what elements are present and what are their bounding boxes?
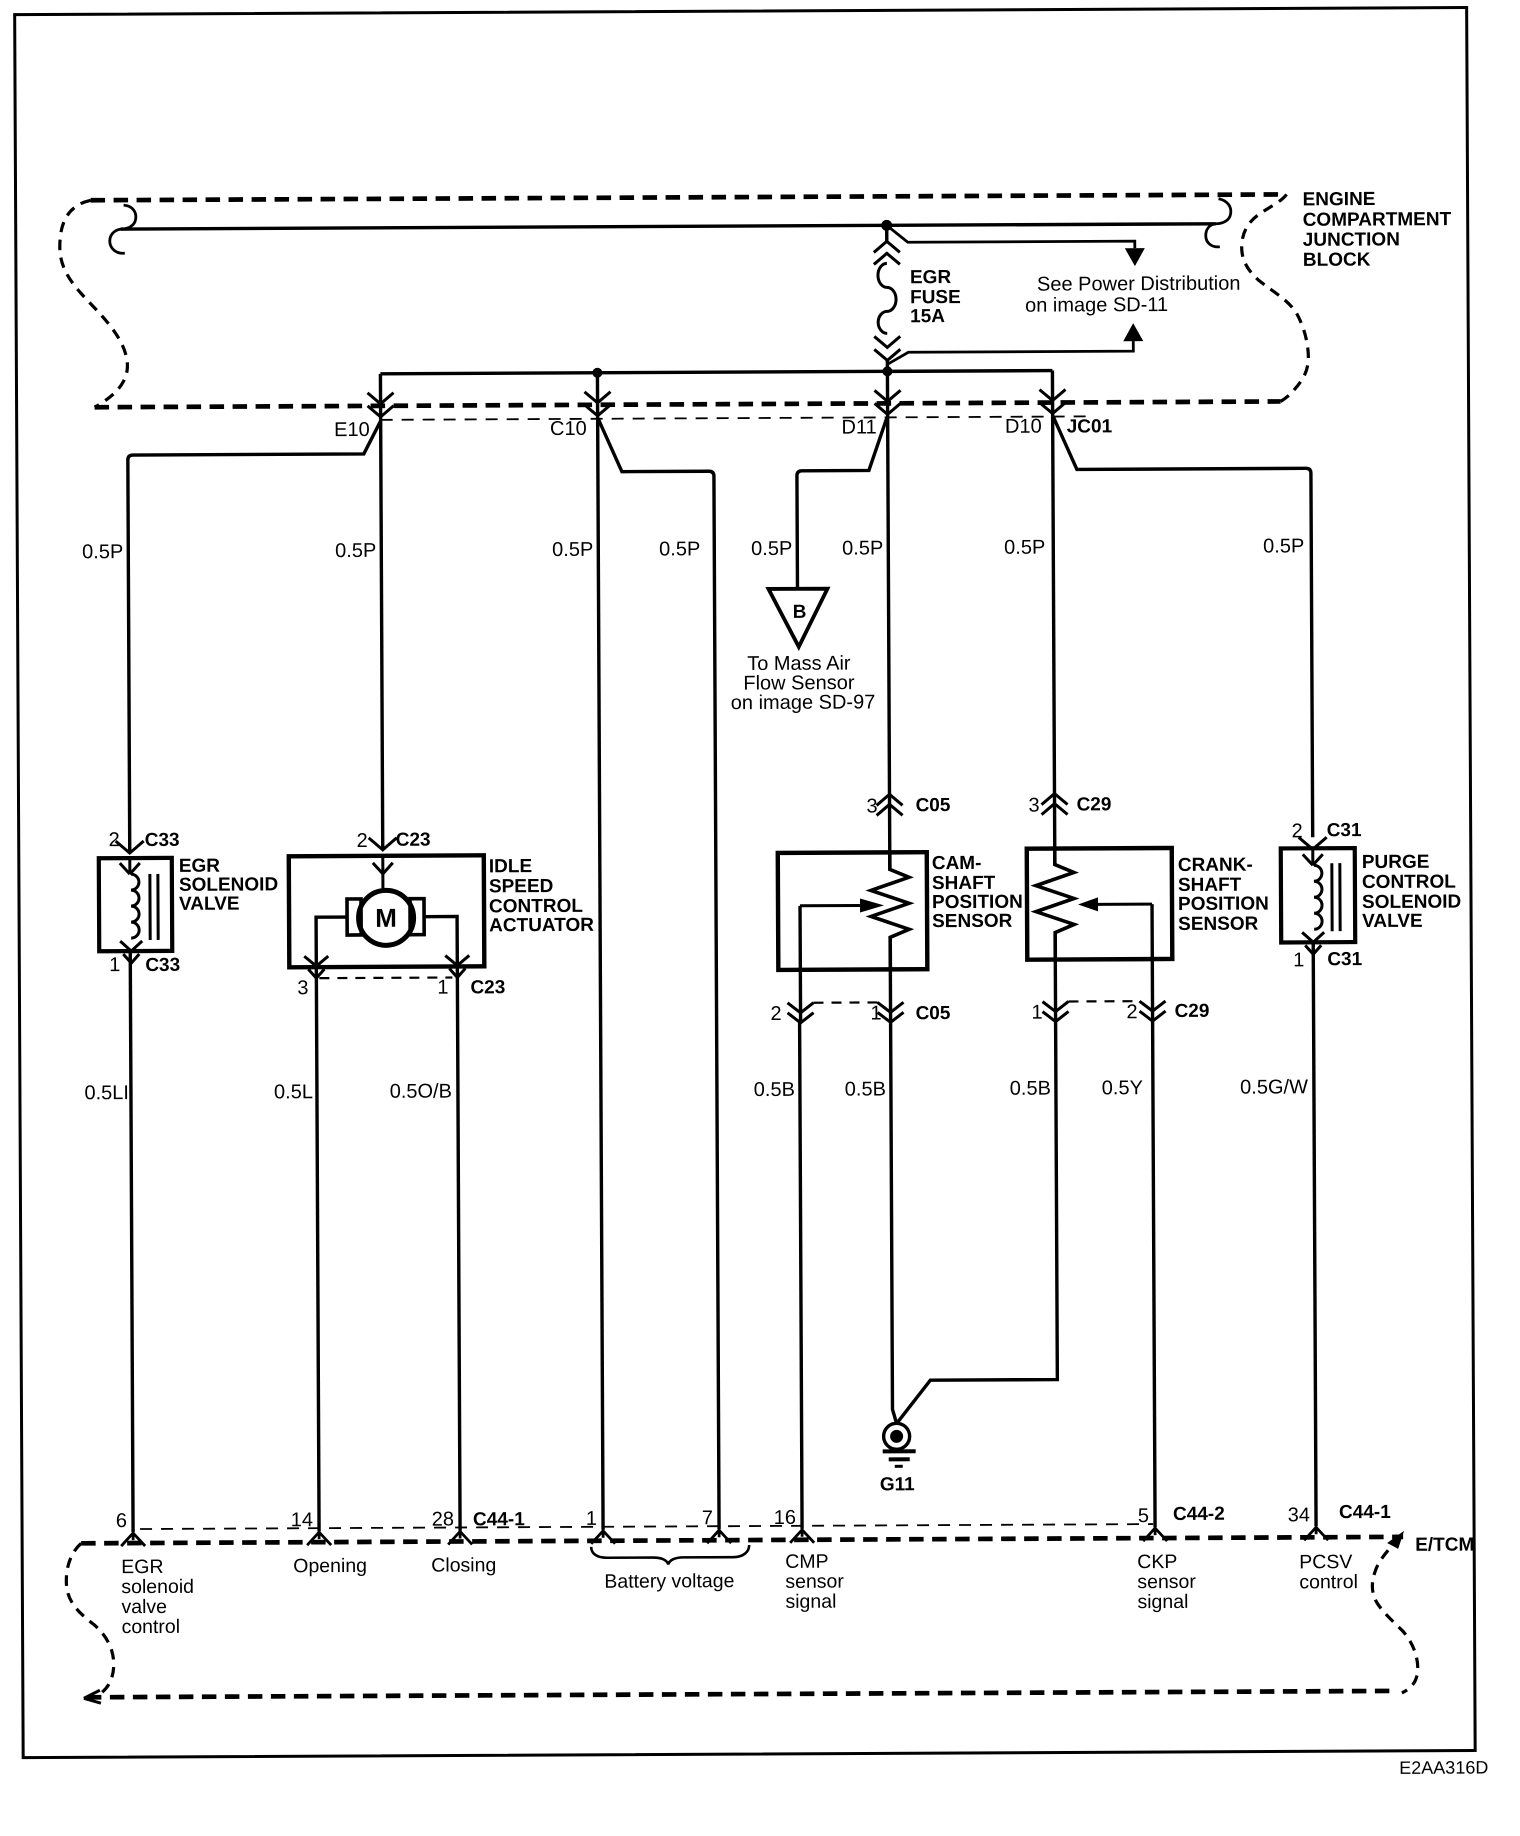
EGR valve entry wire and arrowhead [120, 858, 140, 874]
EGR valve coil [131, 874, 139, 938]
E/TCM top dashed boundary [81, 1537, 1403, 1543]
E/TCM pin 28 [448, 1530, 472, 1544]
connector C05 top (pin 3) [876, 794, 902, 815]
wire D11 to CMP sensor [888, 417, 890, 869]
wire D11 branch to B triangle [797, 418, 888, 587]
svg-text:BLOCK: BLOCK [1303, 250, 1371, 271]
E/TCM bottom dashed boundary [87, 1691, 1396, 1697]
svg-text:1: 1 [109, 954, 120, 976]
wire ISCA pin3 to pin 14 [316, 966, 319, 1531]
dashed tie between C29 pins [1068, 1000, 1139, 1003]
svg-text:D11: D11 [841, 416, 876, 438]
E/TCM pin 34 [1304, 1526, 1328, 1540]
wire EGR valve to pin 6 [130, 951, 133, 1532]
svg-text:0.5B: 0.5B [1010, 1078, 1051, 1100]
svg-text:14: 14 [291, 1509, 313, 1531]
svg-text:15A: 15A [910, 306, 945, 327]
svg-text:2: 2 [1126, 1001, 1137, 1023]
svg-text:C44-1: C44-1 [1339, 1502, 1391, 1523]
svg-text:M: M [375, 903, 397, 933]
wire to See Power Distribution (down arrow) [887, 224, 1135, 249]
junction block right dashed edge [1241, 194, 1308, 401]
svg-text:0.5Y: 0.5Y [1102, 1077, 1143, 1099]
svg-text:1: 1 [437, 977, 448, 999]
svg-text:POSITION: POSITION [1178, 894, 1269, 915]
svg-text:SENSOR: SENSOR [1178, 914, 1259, 935]
svg-text:C29: C29 [1174, 1001, 1209, 1022]
connector C05 bottom pin 2 [788, 1003, 814, 1023]
svg-text:Opening: Opening [293, 1555, 367, 1577]
svg-text:E2AA316D: E2AA316D [1399, 1757, 1488, 1777]
svg-text:G11: G11 [880, 1474, 915, 1495]
wire to See Power Distribution (up arrow) [887, 341, 1133, 364]
dashed tie between C05 pins [814, 1001, 878, 1004]
svg-text:C23: C23 [396, 830, 431, 851]
E/TCM pin 16 [790, 1529, 814, 1543]
arrowhead left end of bottom boundary [84, 1690, 101, 1703]
connector E10 [368, 393, 394, 417]
svg-text:PCSV: PCSV [1299, 1551, 1352, 1573]
wire PCSV to pin 34 [1313, 942, 1316, 1526]
svg-text:PURGE: PURGE [1362, 852, 1430, 873]
svg-text:CRANK-: CRANK- [1178, 855, 1253, 876]
ISCA bottom arrowheads [304, 955, 469, 966]
svg-text:0.5P: 0.5P [82, 541, 123, 563]
wire E10 to ISCA pin2 [381, 420, 383, 850]
svg-text:Battery voltage: Battery voltage [604, 1570, 734, 1593]
brace battery voltage [591, 1545, 749, 1565]
motor brush right [410, 899, 424, 935]
PCSV bottom arrowhead [1302, 932, 1324, 942]
svg-text:control: control [121, 1616, 180, 1638]
wire D10 to CKP sensor [1053, 417, 1055, 865]
connector chevron PCSV top [1299, 837, 1327, 849]
svg-text:D10: D10 [1005, 416, 1042, 438]
dashed tie between ISCA pins [319, 976, 452, 979]
svg-text:34: 34 [1288, 1504, 1310, 1526]
svg-text:0.5G/W: 0.5G/W [1240, 1076, 1308, 1098]
connector D11 [875, 390, 901, 414]
crankshaft position sensor box [1027, 848, 1173, 960]
svg-text:C23: C23 [470, 977, 505, 998]
svg-text:signal: signal [1137, 1591, 1188, 1613]
wire CKP pin2 to pin 5 [1153, 1020, 1155, 1527]
wire break curl right [1206, 199, 1231, 247]
svg-text:JUNCTION: JUNCTION [1303, 229, 1400, 250]
svg-text:IDLE: IDLE [489, 856, 532, 877]
svg-text:0.5P: 0.5P [552, 539, 593, 561]
connector chevron EGR valve bottom [123, 954, 139, 963]
wire: lower distribution bus [380, 371, 1052, 374]
svg-text:ENGINE: ENGINE [1303, 189, 1376, 210]
svg-text:C05: C05 [916, 1003, 951, 1024]
junction block left dashed edge [60, 200, 128, 407]
svg-text:on image SD-97: on image SD-97 [731, 691, 876, 714]
svg-text:0.5O/B: 0.5O/B [390, 1081, 452, 1103]
PCSV entry wire and arrowhead [1303, 848, 1323, 865]
svg-text:C05: C05 [915, 795, 950, 816]
node: C10 branch dot [592, 368, 602, 378]
svg-text:See Power Distribution: See Power Distribution [1037, 273, 1241, 296]
arrowhead toward E/TCM label [1387, 1531, 1404, 1549]
svg-text:0.5P: 0.5P [1263, 535, 1304, 557]
connector D10 [1040, 390, 1066, 414]
svg-text:0.5L: 0.5L [274, 1081, 313, 1103]
E/TCM pin 6 [121, 1532, 145, 1546]
svg-text:COMPARTMENT: COMPARTMENT [1303, 209, 1452, 231]
connector C29 bottom pin 1 [1043, 1001, 1069, 1021]
wire ISCA pin1 to pin 28 [457, 965, 460, 1530]
svg-text:valve: valve [121, 1596, 167, 1618]
fuse F1 EGR FUSE 15A [874, 241, 901, 360]
svg-text:2: 2 [357, 830, 368, 852]
svg-text:3: 3 [297, 977, 308, 999]
connector chevron ISCA top [369, 838, 397, 850]
svg-text:C29: C29 [1076, 794, 1111, 815]
svg-text:VALVE: VALVE [179, 894, 240, 915]
svg-text:solenoid: solenoid [121, 1576, 194, 1598]
svg-text:0.5P: 0.5P [751, 538, 792, 560]
thin dashed connector line [381, 416, 1088, 419]
wire to fuse [885, 225, 888, 241]
svg-text:SPEED: SPEED [489, 876, 554, 897]
PCSV coil [1314, 865, 1322, 929]
node: bus / fuse junction dot [881, 220, 892, 231]
CMP wiper arrow [800, 904, 860, 907]
svg-text:signal: signal [785, 1591, 836, 1613]
connector C29 top (pin 3) [1041, 793, 1067, 814]
svg-text:sensor: sensor [1137, 1571, 1196, 1593]
svg-text:EGR: EGR [121, 1556, 163, 1578]
svg-text:2: 2 [770, 1003, 781, 1025]
idle speed control actuator box [289, 855, 485, 967]
wire motor right to pin 1 [424, 916, 457, 965]
svg-text:sensor: sensor [785, 1571, 844, 1593]
wire break curl left [110, 205, 136, 253]
CKP wiper arrow [1098, 903, 1152, 906]
svg-text:on image SD-11: on image SD-11 [1025, 294, 1168, 317]
svg-text:Closing: Closing [431, 1554, 496, 1576]
wire fuse bottom [886, 360, 889, 371]
svg-text:0.5B: 0.5B [754, 1079, 795, 1101]
svg-text:0.5P: 0.5P [659, 538, 700, 560]
svg-text:6: 6 [116, 1510, 127, 1532]
svg-text:EGR: EGR [179, 856, 221, 877]
svg-text:3: 3 [866, 795, 877, 817]
motor M circle [358, 890, 413, 945]
svg-text:CKP: CKP [1137, 1551, 1177, 1573]
svg-text:16: 16 [774, 1507, 796, 1529]
svg-text:EGR: EGR [910, 267, 952, 288]
svg-text:3: 3 [1028, 795, 1039, 817]
svg-text:CONTROL: CONTROL [1362, 872, 1456, 893]
svg-text:1: 1 [1293, 949, 1304, 971]
ISCA entry wire and arrowhead [373, 856, 393, 890]
svg-text:0.5P: 0.5P [1004, 537, 1045, 559]
wire C10 to pin 1 battery [598, 419, 603, 1530]
svg-text:1: 1 [1031, 1002, 1042, 1024]
svg-text:CMP: CMP [785, 1551, 828, 1573]
svg-text:C44-1: C44-1 [473, 1509, 525, 1530]
svg-text:0.5P: 0.5P [335, 540, 376, 562]
svg-text:VALVE: VALVE [1362, 911, 1423, 932]
CMP resistor zigzag [871, 852, 910, 969]
E/TCM pin 5 [1143, 1527, 1167, 1541]
EGR solenoid valve box [99, 858, 172, 951]
motor brush left [347, 899, 361, 935]
svg-text:7: 7 [702, 1507, 713, 1529]
wire E10 branch to EGR valve [128, 421, 383, 851]
EGR valve core lines [150, 874, 158, 940]
wire D10 branch to PCSV [1054, 416, 1313, 838]
svg-text:JC01: JC01 [1067, 416, 1113, 437]
wire C10 branch to pin 7 battery [599, 419, 719, 1530]
connector C29 bottom pin 2 [1139, 1001, 1165, 1021]
EGR valve bottom arrowhead [120, 941, 142, 951]
svg-text:1: 1 [586, 1508, 597, 1530]
camshaft position sensor box [778, 852, 928, 970]
E/TCM pin 14 [307, 1531, 331, 1545]
svg-text:B: B [793, 602, 807, 623]
svg-text:E/TCM: E/TCM [1415, 1535, 1474, 1556]
wire drops to connectors [379, 374, 383, 420]
svg-text:C10: C10 [550, 418, 587, 440]
svg-text:C44-2: C44-2 [1173, 1504, 1225, 1525]
ground G11 [884, 1423, 910, 1449]
svg-text:0.5B: 0.5B [845, 1078, 886, 1100]
CKP pin wires below box [1054, 960, 1058, 1021]
svg-text:SENSOR: SENSOR [932, 911, 1013, 932]
PCSV core lines [1332, 863, 1340, 931]
svg-text:CAM-: CAM- [932, 853, 982, 874]
connector chevron EGR valve top [116, 841, 144, 853]
connector chevron PCSV bottom [1305, 945, 1321, 954]
purge control solenoid valve box [1281, 848, 1355, 942]
svg-text:1: 1 [870, 1002, 881, 1024]
off-page connector B triangle [768, 589, 827, 647]
wire motor left to pin 3 [316, 917, 347, 966]
svg-text:0.5LI: 0.5LI [84, 1082, 129, 1104]
svg-text:ACTUATOR: ACTUATOR [489, 915, 594, 937]
CKP resistor zigzag [1036, 848, 1075, 959]
CMP pin wires below box [799, 970, 803, 1022]
connector chevrons ISCA bottom [308, 969, 324, 978]
svg-text:control: control [1299, 1571, 1358, 1593]
wire: junction block internal bus [121, 224, 1216, 229]
connector C05 bottom pin 1 [878, 1002, 904, 1022]
svg-text:5: 5 [1138, 1505, 1149, 1527]
svg-text:0.5P: 0.5P [842, 537, 883, 559]
svg-text:C31: C31 [1327, 949, 1362, 970]
E/TCM thin dashed connector line [140, 1524, 1153, 1529]
svg-text:C31: C31 [1327, 820, 1362, 841]
svg-text:FUSE: FUSE [910, 287, 961, 308]
junction block top dashed boundary [91, 194, 1287, 200]
svg-text:28: 28 [432, 1509, 454, 1531]
wire CMP pin1 to ground [891, 1021, 897, 1423]
svg-text:C33: C33 [145, 955, 180, 976]
node: fuse output junction dot [882, 366, 892, 376]
junction block bottom dashed boundary [95, 401, 1281, 407]
svg-text:2: 2 [109, 829, 120, 851]
E/TCM right dashed edge [1372, 1537, 1418, 1693]
svg-text:C33: C33 [145, 830, 180, 851]
E/TCM pin 1 [591, 1530, 615, 1544]
E/TCM left dashed edge [66, 1543, 114, 1699]
connector C10 [585, 392, 611, 416]
wire CKP pin1 to ground [896, 1021, 1058, 1423]
E/TCM pin 7 [707, 1529, 731, 1543]
svg-text:E10: E10 [334, 419, 370, 441]
wire CMP pin2 to pin 16 [800, 1022, 802, 1529]
